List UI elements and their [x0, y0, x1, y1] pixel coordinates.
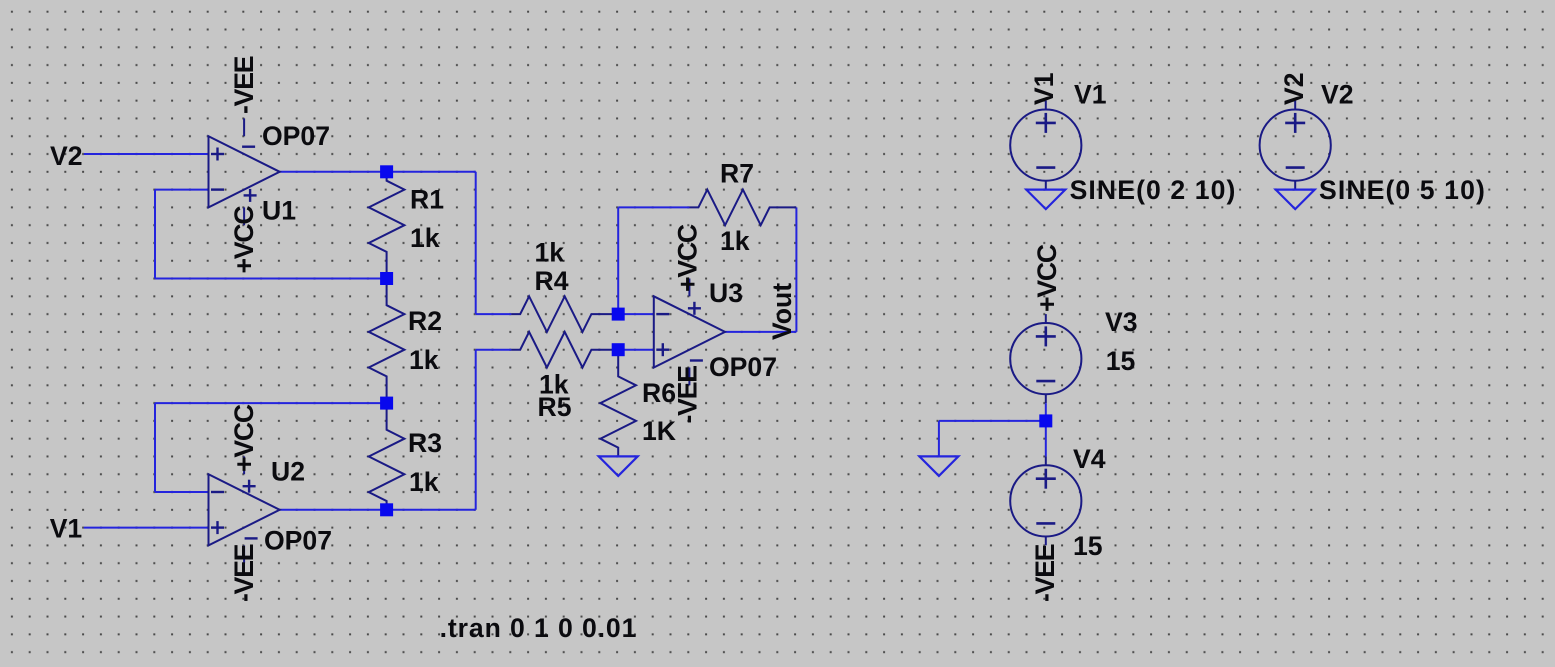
svg-text:OP07: OP07 — [262, 121, 330, 151]
svg-text:V2: V2 — [1321, 80, 1354, 110]
resistor R4 — [511, 296, 618, 332]
svg-text:+VCC: +VCC — [673, 224, 703, 292]
label U2 instance name — [271, 457, 305, 487]
label U1 -VEE pin — [229, 56, 259, 114]
svg-text:U3: U3 — [709, 278, 743, 308]
svg-text:Vout: Vout — [767, 283, 797, 340]
svg-text:R4: R4 — [535, 266, 569, 296]
label V3 instance name — [1105, 307, 1138, 337]
label R2 name — [408, 306, 442, 336]
svg-text:U2: U2 — [271, 457, 305, 487]
label U3 model OP07 — [709, 352, 777, 382]
wire U1 output — [280, 171, 476, 173]
wire feedback node E vertical — [617, 207, 619, 314]
svg-text:-VEE: -VEE — [229, 56, 259, 114]
wire V1 input to U2 in+ — [84, 527, 209, 529]
label R5 value 1k — [539, 370, 569, 400]
wire into R5 left — [476, 349, 512, 351]
svg-text:SINE(0 2 10): SINE(0 2 10) — [1070, 175, 1237, 205]
svg-text:V3: V3 — [1105, 307, 1138, 337]
svg-text:1k: 1k — [720, 226, 750, 256]
node A junction U1 out / R1 — [380, 165, 393, 178]
svg-text:V1: V1 — [50, 514, 83, 544]
label spice directive .tran — [440, 613, 638, 643]
wire R4 to U3 in- — [618, 313, 654, 315]
svg-text:OP07: OP07 — [709, 352, 777, 382]
svg-text:R5: R5 — [538, 392, 572, 422]
label V1 rotated pin name — [1029, 72, 1059, 105]
ground under V1 — [1026, 190, 1065, 210]
label R3 value 1k — [409, 467, 439, 497]
wire R7 right vertical to output — [795, 207, 797, 332]
wire R5 to U3 in+ — [618, 349, 654, 351]
label R6 name — [642, 378, 676, 408]
wire feedback horizontal to R7 — [618, 206, 689, 208]
wire U3 output Vout — [725, 331, 796, 333]
label U2 -VEE pin — [229, 544, 259, 602]
label V2 input net — [50, 141, 83, 171]
svg-text:1k: 1k — [409, 345, 439, 375]
label V2 value SINE — [1319, 175, 1486, 205]
svg-text:V4: V4 — [1073, 444, 1106, 474]
svg-text:R7: R7 — [720, 159, 754, 189]
voltage source V1 — [1010, 101, 1081, 190]
wire U1 feedback horizontal to node B — [155, 278, 387, 280]
resistor R5 — [511, 332, 618, 368]
svg-text:15: 15 — [1106, 346, 1136, 376]
op-amp U1 — [209, 118, 280, 225]
label V1 instance name — [1074, 80, 1107, 110]
svg-text:V1: V1 — [1029, 72, 1059, 105]
label U1 model OP07 — [262, 121, 330, 151]
wire V3 to junction — [1045, 403, 1047, 456]
label V4 -VEE net — [1030, 544, 1060, 602]
label U3 +VCC pin — [673, 224, 703, 292]
label R5 name — [538, 392, 572, 422]
label V3 value 15 — [1106, 346, 1136, 376]
svg-text:OP07: OP07 — [264, 526, 332, 556]
resistor R6 — [600, 350, 636, 457]
label V4 value 15 — [1073, 531, 1103, 561]
wire U2 feedback vertical — [154, 403, 156, 492]
wire node D up to R5 — [475, 350, 477, 510]
node G junction V3/V4/ground — [1039, 414, 1052, 427]
node E junction R4 / U3 in- / R7 — [612, 308, 625, 321]
svg-text:+VCC: +VCC — [229, 206, 259, 274]
ground at V3/V4 — [919, 456, 958, 476]
wire U1 feedback vertical — [154, 190, 156, 279]
svg-text:-VEE: -VEE — [1030, 544, 1060, 602]
wire into R4 left — [476, 313, 512, 315]
svg-text:R6: R6 — [642, 378, 676, 408]
svg-text:R1: R1 — [410, 185, 444, 215]
label R7 value 1k — [720, 226, 750, 256]
svg-text:U1: U1 — [262, 196, 296, 226]
svg-text:1k: 1k — [535, 238, 565, 268]
label U2 +VCC pin — [229, 404, 259, 472]
ground under V2 — [1276, 190, 1315, 210]
svg-text:SINE(0 5 10): SINE(0 5 10) — [1319, 175, 1486, 205]
voltage source V4 — [1010, 456, 1081, 545]
wire junction to ground horizontal — [939, 420, 1046, 422]
wire V2 input to U1 in+ — [84, 153, 209, 155]
resistor R1 — [369, 172, 405, 279]
svg-text:.tran 0 1 0 0.01: .tran 0 1 0 0.01 — [440, 613, 638, 643]
resistor R2 — [369, 279, 405, 404]
label R2 value 1k — [409, 345, 439, 375]
svg-text:R2: R2 — [408, 306, 442, 336]
resistor R7 — [690, 190, 797, 226]
label R4 value 1k — [535, 238, 565, 268]
voltage source V2 — [1260, 101, 1331, 190]
op-amp U2 — [209, 456, 280, 563]
resistor R3 — [369, 403, 405, 510]
label R4 name — [535, 266, 569, 296]
voltage source V3 — [1010, 314, 1081, 403]
label V2 rotated pin name — [1279, 72, 1309, 105]
label R1 value 1k — [410, 223, 440, 253]
svg-text:-VEE: -VEE — [673, 366, 703, 424]
svg-text:-VEE: -VEE — [229, 544, 259, 602]
svg-text:+VCC: +VCC — [229, 404, 259, 472]
ground at R6 — [599, 456, 638, 476]
svg-text:V2: V2 — [1279, 72, 1309, 105]
label U1 instance name — [262, 196, 296, 226]
node B junction R1/R2/feedback — [380, 272, 393, 285]
label V1 value SINE — [1070, 175, 1237, 205]
op-amp U3 — [654, 279, 725, 386]
wire U2 in- stub — [155, 491, 209, 493]
wire node A down to R4 — [475, 172, 477, 314]
svg-text:1k: 1k — [410, 223, 440, 253]
label U1 +VCC pin — [229, 206, 259, 274]
label R7 name — [720, 159, 754, 189]
label V3 +VCC net — [1032, 244, 1062, 312]
label V2 instance name — [1321, 80, 1354, 110]
label V1 input net — [50, 514, 83, 544]
node C junction R2/R3/feedback — [380, 397, 393, 410]
label V4 instance name — [1073, 444, 1106, 474]
label R1 name — [410, 185, 444, 215]
label U3 instance name — [709, 278, 743, 308]
label R3 name — [408, 428, 442, 458]
label Vout net — [767, 283, 797, 340]
svg-text:V2: V2 — [50, 141, 83, 171]
label U3 -VEE pin — [673, 366, 703, 424]
label U2 model OP07 — [264, 526, 332, 556]
label R6 value 1K — [642, 416, 676, 446]
wire U2 output — [280, 509, 476, 511]
svg-text:+VCC: +VCC — [1032, 244, 1062, 312]
svg-text:R3: R3 — [408, 428, 442, 458]
node D junction R3 / U2 out — [380, 503, 393, 516]
wire ground drop — [938, 421, 940, 457]
wire U1 in- stub — [155, 189, 209, 191]
svg-text:1k: 1k — [409, 467, 439, 497]
svg-text:15: 15 — [1073, 531, 1103, 561]
wire U2 feedback horizontal to node C — [155, 402, 387, 404]
svg-text:V1: V1 — [1074, 80, 1107, 110]
node F junction R5 / U3 in+ / R6 — [612, 343, 625, 356]
svg-text:1K: 1K — [642, 416, 676, 446]
